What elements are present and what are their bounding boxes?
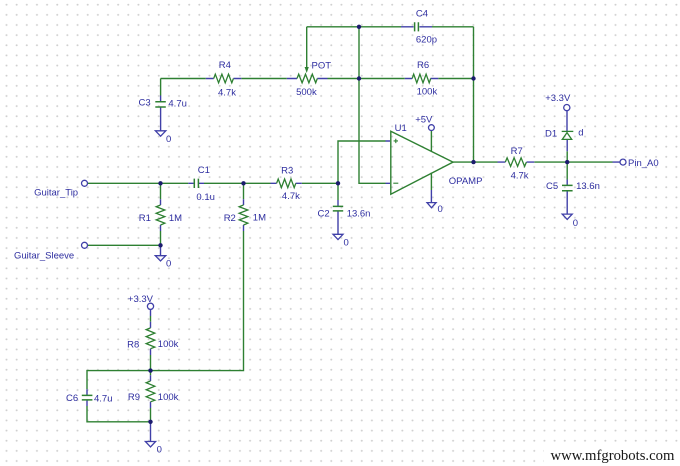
svg-text:OPAMP: OPAMP <box>449 176 483 187</box>
svg-text:Guitar_Sleeve: Guitar_Sleeve <box>14 250 74 261</box>
svg-text:0: 0 <box>573 218 578 229</box>
svg-text:4.7u: 4.7u <box>168 99 187 110</box>
svg-text:0: 0 <box>438 204 443 215</box>
svg-text:C3: C3 <box>139 98 151 109</box>
svg-text:R7: R7 <box>511 146 523 157</box>
svg-text:R6: R6 <box>417 60 429 71</box>
svg-text:Guitar_Tip: Guitar_Tip <box>34 188 78 199</box>
svg-text:4.7k: 4.7k <box>511 170 529 181</box>
svg-text:+3.3V: +3.3V <box>545 93 571 104</box>
svg-text:0: 0 <box>157 444 162 455</box>
svg-text:100k: 100k <box>158 392 179 403</box>
svg-text:0: 0 <box>166 259 171 270</box>
svg-text:0.1u: 0.1u <box>196 192 215 203</box>
svg-text:www.mfgrobots.com: www.mfgrobots.com <box>551 448 675 464</box>
svg-text:1M: 1M <box>169 213 182 224</box>
svg-text:d: d <box>578 128 583 139</box>
svg-text:4.7k: 4.7k <box>218 87 236 98</box>
svg-text:C4: C4 <box>416 8 428 19</box>
svg-text:100k: 100k <box>417 86 438 97</box>
svg-text:R2: R2 <box>224 213 236 224</box>
svg-text:620p: 620p <box>416 35 437 46</box>
svg-text:13.6n: 13.6n <box>576 181 600 192</box>
svg-text:4.7k: 4.7k <box>282 191 300 202</box>
svg-text:+3.3V: +3.3V <box>128 294 154 305</box>
svg-text:4.7u: 4.7u <box>94 394 113 405</box>
svg-text:R1: R1 <box>139 213 151 224</box>
svg-text:U1: U1 <box>395 123 407 134</box>
svg-text:0: 0 <box>166 134 171 145</box>
svg-text:+5V: +5V <box>415 115 433 126</box>
svg-text:POT: POT <box>312 61 332 72</box>
svg-text:C6: C6 <box>66 393 78 404</box>
svg-text:D1: D1 <box>545 128 557 139</box>
svg-text:R4: R4 <box>219 60 231 71</box>
svg-text:1M: 1M <box>253 213 266 224</box>
svg-text:R3: R3 <box>281 165 293 176</box>
svg-text:13.6n: 13.6n <box>347 209 371 220</box>
svg-text:500k: 500k <box>296 87 317 98</box>
svg-text:R9: R9 <box>128 392 140 403</box>
svg-text:C2: C2 <box>318 208 330 219</box>
svg-text:C5: C5 <box>546 181 558 192</box>
svg-text:C1: C1 <box>198 165 210 176</box>
svg-text:Pin_A0: Pin_A0 <box>628 158 659 169</box>
svg-text:R8: R8 <box>127 339 139 350</box>
svg-text:0: 0 <box>344 237 349 248</box>
svg-text:100k: 100k <box>158 339 179 350</box>
